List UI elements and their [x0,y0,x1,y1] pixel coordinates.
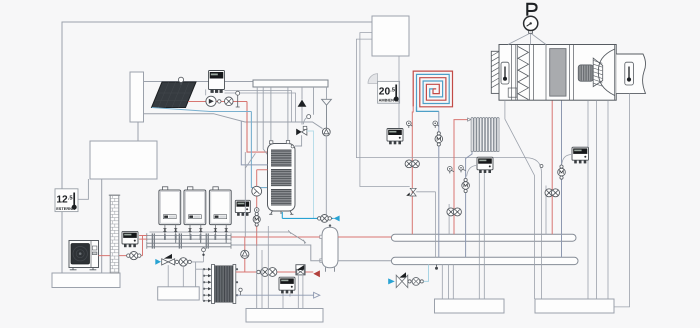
valve cold water inlet [318,217,321,220]
wire HP supply (red) [99,236,143,256]
fitting union HX [257,270,260,273]
pump P-DHW [252,186,262,196]
solar collector SC1 [152,82,197,108]
fitting HX left stubs [203,268,212,303]
radiator R1 [471,118,500,152]
wire gauge fan lines [508,33,546,45]
heat exchanger HX1 plate [212,265,236,304]
valve boiler B1 isolation a [163,228,167,231]
pump P-solar [206,96,216,106]
node plinth C [535,299,614,313]
pump AHU-1 [545,189,553,197]
node cold water arrow [334,216,340,222]
wire valve drops [298,275,303,309]
wire AHU condensate diagonal [505,100,535,299]
node make-up water arrow (cyan) [155,259,161,265]
wire heat meter wires [283,294,290,309]
node DHW outlet arrow (red) [313,270,320,277]
pump P-HX-2a [261,268,270,277]
wire CT-RAD drop 2 [483,173,485,299]
wire HX left riser [202,269,204,301]
sensor thermo DHW [254,208,259,213]
valve M FH mixing [437,132,440,135]
pump FH-2 [412,160,420,168]
wire RAD supply riser (red) [454,120,471,235]
wire AHU supply riser (red) [551,100,553,234]
sensor external display 12.5 [55,189,78,212]
wire stat wire [398,56,400,128]
node manifold section joints [152,233,209,248]
wire controller signal 2 [225,93,296,123]
node equipment base box [158,287,200,300]
pump P-HX-2b [268,268,277,277]
wire controller-to-pump [205,89,207,95]
wire tank drop gray [244,152,246,237]
node drain arrow (open) [314,292,320,298]
node AHU partition 1 [512,45,516,101]
tank DHW storage with coils [268,141,296,212]
wire plate hanger d [287,87,289,141]
node make-up water arrow 2 (cyan) [388,278,395,284]
node AHU casing [499,45,616,101]
valve safety relief (black triangle) [298,100,307,107]
wire plate hanger c [270,87,272,143]
wire FH bypass [416,192,435,257]
node label P [527,4,536,16]
gauge P1 [524,16,538,33]
controller CT-RAD [477,157,493,170]
node AHU fan scroll [598,49,614,96]
sensor thermo FH supply [411,125,413,126]
meter water [412,278,420,286]
wire controller signal 1 [225,91,292,123]
node ceiling plate [253,80,328,87]
sensor ambient display 20.5 [378,81,400,103]
valve anti-scald (black flag) [296,265,305,275]
wire boiler B3 tails [215,225,226,243]
wire AHU standby stub [545,186,547,235]
controller CT-AHU [572,147,589,160]
wire boiler B2 tails [190,225,201,243]
wire HX secondary (red) [236,271,313,273]
node AHU intake louver [491,51,499,93]
wire RAD return riser [466,152,472,258]
controller CT2 boiler-cascade [235,200,250,212]
wire CT-RAD to valve [467,166,477,177]
wire cold water line (cyan) [282,212,333,218]
valve M mixing DHW [255,212,258,215]
valve radiator thermostatic [468,118,471,121]
wire tank strut diagonal [245,153,255,168]
wire plate hanger b [263,87,268,156]
wire AHU drop c [596,100,598,299]
fitting unions cluster [175,260,178,263]
wire cluster drops [168,265,183,287]
wire tank mid return [241,122,267,165]
node manifold tail flanges [164,234,227,240]
valve cluster balancing [179,258,187,266]
sensor thermo FH return [437,125,439,126]
air vent solar [236,91,240,107]
fitting header drain [435,265,438,270]
wire make-up riser (pale) [423,265,428,282]
fitting discharge funnel [322,99,332,128]
pump P-HX primary [241,250,249,258]
node AHU fan motor [578,65,593,81]
wire plinth B feeds [442,265,453,299]
node AHU outlet duct [616,54,645,93]
wire cluster to HX [191,262,203,287]
wire sensor link [78,179,88,199]
wire signal bus A [356,39,541,299]
valve 3-way anti-freeze (black flag) [162,254,175,265]
node solar support column [130,72,144,122]
wire drain line [237,294,314,296]
wire duct drop [614,93,630,307]
heat pump HP1 outdoor unit [69,241,99,270]
fitting HX vent [239,288,242,295]
fitting vent elbow [303,115,310,125]
pump RAD-2 [453,208,461,216]
node floor heating spiral (blue) [417,74,450,111]
solar controller CT1 [209,71,225,93]
wire AHU return riser [561,100,563,257]
wire solar supply (red) [188,102,268,153]
controller CT-FH room [387,129,403,142]
node AHU heating coil [550,49,566,97]
valve M RAD [464,178,467,181]
fitting bus sensor [540,165,543,168]
wire manifold supply to separator (red) [231,236,320,238]
pump FH-1 [405,160,413,168]
wire DHW column lower [256,246,258,309]
sensor thermo RAD supply [452,170,455,172]
wire roof top line [144,81,255,83]
node return header [391,257,578,264]
wire DHW column (red) [257,170,268,246]
valve pressure reducer (black flag) [396,272,408,287]
wire building frame left/top [62,22,372,273]
fitting union solar [218,100,221,103]
node AHU inner box [508,88,517,97]
wire AHU drop b [587,100,589,299]
tank legs [269,211,293,215]
fitting tank drain [280,211,282,214]
valve 3-way FH mixing [406,188,416,196]
sensor signal wedge [368,74,378,84]
node room box [372,16,409,56]
wire manifold crossdrops [176,239,227,243]
node plinth A [246,309,323,323]
sensor AHU thermometer intake [501,62,509,84]
pump RAD-1 [447,208,455,216]
wire AHU drop d [607,100,609,299]
wire tank drops [262,226,268,309]
sensor thermo RAD return [463,169,466,170]
wire FH return riser [438,111,440,257]
valve solar balancing [225,97,234,106]
valve boiler B1 isolation b [174,228,178,231]
controller CT-HP [122,231,138,244]
wire recirc drop [325,136,327,219]
wire manifold return from separator [231,245,321,261]
wire boiler B1 tails [165,225,176,243]
wire valve V1 to tank [295,135,302,146]
wire roof bottom line [144,114,323,129]
node supply header [391,234,576,241]
wire FH supply riser (red) [411,107,414,234]
wire boiler-room wall [101,179,103,273]
wire signal bus B [360,33,410,187]
sensor AHU thermometer outlet [625,62,634,85]
wire CT-AHU to valve [562,155,572,165]
valve boiler B2 isolation a [188,228,192,231]
pump AHU-2 [552,189,560,197]
valve HP balancing [127,254,130,257]
valve boiler B3 isolation b [224,228,228,231]
node AHU fan wedge [593,58,603,87]
controller CT-heat-meter [279,277,295,290]
fitting manifold drop valve [202,247,206,262]
tank coil windings [271,150,292,206]
tank hydraulic separator [320,224,338,271]
fitting HX right stubs [236,268,238,296]
pump P-recirc [322,128,330,136]
sensor T-collector [178,77,183,85]
node heat pump plinth [52,273,120,288]
fitting union mw2 [420,280,423,283]
node AHU filter zigzag [518,47,529,100]
node boiler manifold pipe 2 [147,242,231,249]
node boiler manifold pipe 1 [147,233,231,241]
fitting union mw1 [408,280,411,283]
valve boiler B3 isolation a [214,228,218,231]
wire pale recirculation [307,131,314,218]
wire safety bus diagonal [150,230,307,243]
wire plate hanger a [256,87,258,151]
boiler B2 [184,187,206,225]
wire column-to-box [137,122,139,141]
node boiler-room box [90,141,157,179]
valve 3-way V1 (motorised) [296,126,307,135]
node plinth B [435,299,505,313]
boiler B3 [209,187,231,225]
wire CT-RAD drop [478,173,480,299]
wire safety stem [301,87,303,125]
valve M AHU [560,165,563,168]
wire HP manifold stubs (red) [139,236,147,240]
wire hanger elbow [313,87,315,115]
valve boiler B2 isolation b [199,228,203,231]
boiler B1 [159,187,181,225]
wire RAD standby stub [448,204,450,234]
wire separator to header return [338,260,391,262]
wire separator to header supply (red) [338,236,391,238]
wire spiral blue tail [417,107,439,112]
wire solar return (blue) [152,108,268,188]
wire manifold to HX pump (red) [244,237,246,272]
node chimney [109,195,120,273]
node floor heating spiral (red) [413,71,452,107]
wire funnel hanger [326,87,328,100]
